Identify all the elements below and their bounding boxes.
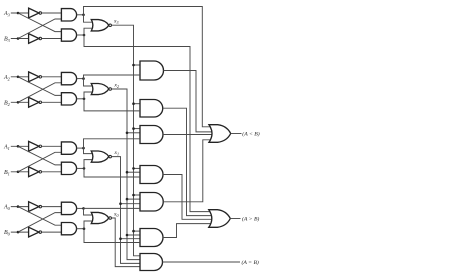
svg-text:(A > B): (A > B) (242, 216, 259, 223)
svg-text:x3: x3 (113, 19, 118, 26)
svg-text:B2: B2 (4, 100, 11, 107)
svg-text:B3: B3 (4, 37, 10, 44)
svg-text:A3: A3 (3, 11, 10, 18)
svg-text:x0: x0 (113, 211, 118, 218)
svg-text:(A = B): (A = B) (242, 259, 259, 266)
svg-text:x1: x1 (114, 150, 119, 157)
svg-text:A0: A0 (3, 205, 11, 212)
svg-text:(A < B): (A < B) (242, 131, 259, 138)
svg-text:B1: B1 (4, 170, 10, 177)
svg-text:B0: B0 (4, 230, 11, 237)
svg-text:A1: A1 (3, 144, 10, 151)
svg-text:A2: A2 (3, 75, 11, 82)
svg-text:x2: x2 (114, 83, 119, 90)
